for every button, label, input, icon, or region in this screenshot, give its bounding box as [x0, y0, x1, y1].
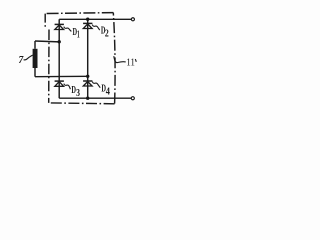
junction dot bottom of right rail	[86, 97, 89, 100]
wire: top DC rail from bridge to terminal	[59, 18, 131, 20]
leader squiggle to label D1	[64, 27, 72, 32]
wire: AC lead from component 7 bottom to node B	[35, 75, 88, 77]
enclosure dash-dot border (item 11), top side	[47, 12, 114, 15]
wire: component 7 bottom lead	[34, 68, 36, 77]
svg-text:3: 3	[76, 88, 80, 99]
enclosure dash-dot border, bottom side	[49, 102, 115, 105]
svg-text:2: 2	[105, 28, 109, 39]
wire: AC lead from component 7 top to node A	[35, 40, 59, 43]
node A junction dot (AC input, left rail)	[58, 40, 61, 43]
diode D1 cathode bar	[55, 23, 64, 25]
diode D2 cathode bar	[83, 22, 92, 24]
svg-text:7: 7	[19, 55, 25, 66]
enclosure dash-dot border, right side	[113, 13, 115, 104]
leader squiggle to label D2	[92, 25, 100, 30]
svg-text:11: 11	[126, 58, 135, 69]
output terminal circle (top, +)	[131, 18, 134, 21]
svg-text:1: 1	[77, 29, 80, 40]
diode D2 triangle	[83, 24, 92, 29]
wire: bottom DC rail from bridge to terminal	[59, 97, 131, 99]
leader squiggle to label D4	[92, 82, 100, 88]
enclosure dash-dot border, left side lower part	[48, 30, 50, 103]
leader squiggle to label D3	[64, 84, 71, 90]
wire: right bridge rail	[87, 19, 89, 98]
junction dot top of right rail	[86, 18, 89, 21]
component 7 body (filled block)	[33, 49, 38, 68]
diode D4 triangle	[83, 82, 92, 87]
leader squiggle to label 7	[24, 55, 33, 60]
node B junction dot (AC input, right rail)	[86, 75, 89, 78]
diode D3 triangle	[55, 82, 64, 87]
wire: component 7 top lead	[34, 41, 36, 49]
svg-text:4: 4	[106, 87, 110, 98]
diode D4 cathode bar	[83, 80, 92, 82]
enclosure dash-dot border, left side	[44, 14, 46, 27]
output terminal circle (bottom, -)	[131, 97, 134, 100]
diode D3 cathode bar	[55, 80, 64, 82]
leader squiggle from border to label 11'	[114, 56, 126, 63]
wire: left bridge rail	[58, 19, 60, 98]
prime mark of label 11'	[135, 59, 136, 62]
diode D1 triangle	[55, 25, 64, 30]
